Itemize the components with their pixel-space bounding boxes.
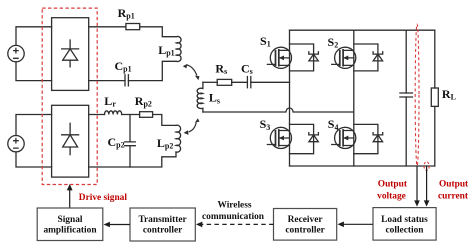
inductor Lp1 bbox=[176, 36, 181, 61]
svg-text:Output: Output bbox=[439, 180, 469, 190]
svg-text:amplification: amplification bbox=[43, 226, 97, 236]
wire Rs to Cs bbox=[232, 81, 248, 83]
wire U2 to Lr bbox=[89, 114, 105, 116]
mosfet S3 bbox=[267, 127, 291, 148]
arrow output voltage down bbox=[414, 166, 420, 207]
wire Cp1 to U1 bbox=[89, 80, 125, 82]
svg-text:Receiver: Receiver bbox=[288, 215, 323, 225]
wire Rp2 to Lp2 bbox=[153, 115, 176, 126]
body diode D4 bbox=[354, 124, 383, 153]
wire Lp2 bottom bbox=[89, 152, 176, 167]
inductor Ls bbox=[197, 82, 203, 112]
load rail bbox=[434, 30, 436, 166]
diode inside U2 bbox=[62, 123, 79, 154]
svg-text:Wireless: Wireless bbox=[217, 201, 251, 211]
svg-text:Drive signal: Drive signal bbox=[79, 193, 128, 203]
ac source V1 bbox=[8, 45, 24, 61]
svg-text:controller: controller bbox=[143, 226, 182, 236]
rectifier U2 bbox=[52, 105, 89, 177]
arrow load status to receiver bbox=[338, 222, 374, 228]
box signal amplification bbox=[37, 208, 103, 241]
box load status collection bbox=[373, 208, 436, 241]
inductor Lp2 bbox=[176, 125, 181, 152]
wire Lr to Rp2 bbox=[122, 114, 140, 116]
box transmitter controller bbox=[130, 208, 195, 241]
capacitor Cp2 branch bbox=[125, 115, 136, 168]
resistor Rp1 bbox=[126, 24, 140, 30]
wire Cs to bridge bbox=[251, 81, 290, 83]
svg-text:communication: communication bbox=[202, 212, 265, 222]
bridge middle rail bbox=[353, 30, 355, 166]
body diode D1 bbox=[290, 44, 319, 71]
resistor Rs bbox=[217, 79, 232, 85]
capacitor Cp1 bbox=[125, 75, 128, 86]
wire Ls to Rs bbox=[203, 81, 217, 83]
body diode D3 bbox=[290, 124, 319, 153]
wire V2 bottom to rectifier U2 bbox=[16, 152, 52, 167]
mosfet S2 bbox=[332, 47, 356, 68]
svg-text:current: current bbox=[438, 191, 469, 201]
bridge left rail bbox=[289, 30, 291, 166]
dashed arrow receiver to transmitter bbox=[196, 222, 274, 228]
arrow transmitter to signal bbox=[104, 222, 131, 228]
wire U1 to Rp1 bbox=[89, 26, 126, 28]
coupling arrow Lp1-Ls bbox=[183, 64, 200, 80]
wire Rp1 to Lp1 bbox=[140, 27, 177, 37]
svg-text:collection: collection bbox=[385, 226, 424, 236]
bridge bottom rail bbox=[290, 165, 435, 167]
mosfet S4 bbox=[332, 127, 356, 148]
wire Lp1 to Cp1 bbox=[128, 61, 176, 80]
filter capacitor rail bbox=[405, 30, 407, 166]
inductor Lr bbox=[105, 111, 122, 115]
svg-text:Load status: Load status bbox=[381, 215, 428, 225]
filter capacitor plates bbox=[400, 93, 413, 97]
svg-text:Transmitter: Transmitter bbox=[138, 215, 186, 225]
coupling arrow Lp2-Ls bbox=[184, 118, 200, 135]
wire V2 top to rectifier U2 bbox=[16, 115, 52, 136]
mosfet S1 bbox=[267, 47, 291, 68]
box receiver controller bbox=[274, 209, 337, 241]
wire V1 bottom to rectifier U1 bbox=[16, 62, 52, 81]
svg-text:Signal: Signal bbox=[57, 215, 82, 225]
ac source V2 bbox=[8, 136, 24, 152]
wire Ls bottom with hop over left rail bbox=[203, 108, 354, 112]
body diode D2 bbox=[354, 44, 383, 71]
svg-text:Output: Output bbox=[378, 180, 408, 190]
red dashed voltage probe bbox=[415, 24, 419, 166]
arrow output current down bbox=[424, 166, 430, 207]
arrow drive signal up bbox=[67, 184, 73, 208]
resistor Rp2 bbox=[140, 112, 153, 118]
capacitor Cs bbox=[247, 77, 250, 88]
red dashed drive region bbox=[42, 8, 97, 184]
bridge top rail bbox=[290, 29, 435, 31]
wire V1 top to rectifier U1 bbox=[16, 27, 52, 46]
resistor RL bbox=[431, 88, 438, 106]
rectifier U1 bbox=[52, 18, 89, 91]
red dashed current probe bbox=[424, 162, 429, 170]
svg-text:controller: controller bbox=[285, 226, 324, 236]
diode inside U1 bbox=[62, 40, 79, 67]
svg-text:voltage: voltage bbox=[377, 191, 406, 201]
